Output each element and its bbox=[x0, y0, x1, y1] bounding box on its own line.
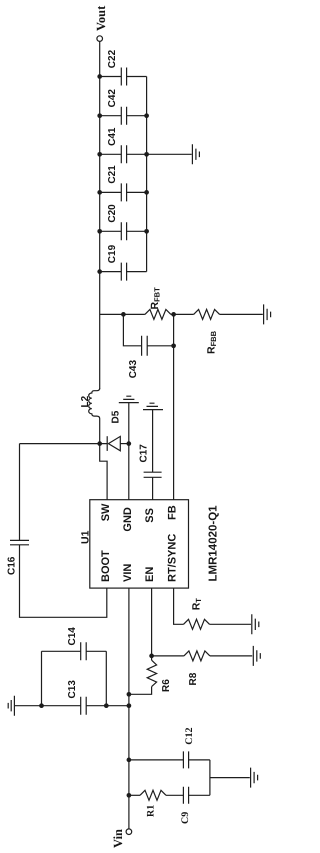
svg-text:GND: GND bbox=[122, 507, 134, 532]
svg-text:C22: C22 bbox=[107, 49, 118, 68]
svg-text:C9: C9 bbox=[180, 812, 191, 824]
svg-text:SS: SS bbox=[144, 508, 156, 523]
svg-text:C21: C21 bbox=[107, 165, 118, 184]
svg-text:C16: C16 bbox=[6, 556, 17, 575]
svg-text:C12: C12 bbox=[184, 727, 195, 744]
svg-text:Vout: Vout bbox=[94, 5, 108, 31]
svg-text:C41: C41 bbox=[107, 127, 118, 146]
svg-text:R8: R8 bbox=[188, 672, 199, 685]
svg-text:C43: C43 bbox=[128, 360, 139, 379]
svg-text:FB: FB bbox=[167, 505, 179, 520]
svg-text:U1: U1 bbox=[80, 530, 92, 544]
svg-text:R1: R1 bbox=[146, 805, 157, 817]
svg-text:LMR14020-Q1: LMR14020-Q1 bbox=[207, 505, 219, 582]
svg-text:C17: C17 bbox=[138, 444, 149, 463]
svg-text:C13: C13 bbox=[67, 680, 78, 699]
svg-text:C20: C20 bbox=[107, 204, 118, 223]
svg-text:VIN: VIN bbox=[122, 564, 134, 582]
svg-text:SW: SW bbox=[100, 503, 112, 521]
svg-text:C14: C14 bbox=[67, 627, 78, 646]
svg-text:R6: R6 bbox=[161, 679, 172, 692]
svg-text:D5: D5 bbox=[111, 410, 122, 423]
svg-text:RT/SYNC: RT/SYNC bbox=[167, 534, 179, 582]
svg-text:BOOT: BOOT bbox=[100, 550, 112, 582]
svg-text:C19: C19 bbox=[107, 244, 118, 263]
svg-text:C42: C42 bbox=[107, 89, 118, 108]
svg-text:EN: EN bbox=[144, 567, 156, 582]
svg-text:Vin: Vin bbox=[111, 829, 125, 848]
svg-text:L2: L2 bbox=[80, 395, 91, 407]
